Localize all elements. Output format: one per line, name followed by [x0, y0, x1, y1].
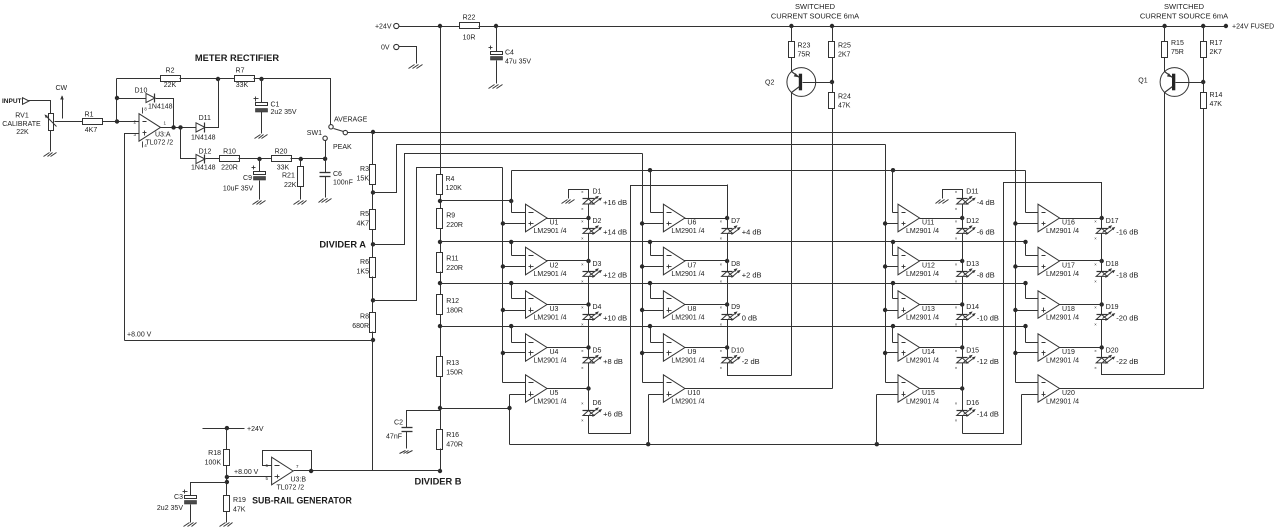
svg-text:D20: D20	[1106, 347, 1119, 354]
svg-text:-22 dB: -22 dB	[1116, 357, 1138, 366]
svg-text:U3:A: U3:A	[155, 132, 171, 139]
svg-text:150R: 150R	[446, 370, 463, 377]
svg-text:D13: D13	[966, 261, 979, 268]
svg-text:-4 dB: -4 dB	[977, 198, 995, 207]
svg-text:C2: C2	[394, 420, 403, 427]
svg-text:U2: U2	[550, 263, 559, 270]
svg-text:+6 dB: +6 dB	[603, 410, 623, 419]
svg-text:2u2 35V: 2u2 35V	[271, 109, 297, 116]
svg-text:R24: R24	[838, 94, 851, 101]
svg-text:D14: D14	[966, 304, 979, 311]
svg-text:R18: R18	[208, 450, 221, 457]
svg-text:U11: U11	[922, 220, 934, 227]
svg-text:PEAK: PEAK	[333, 144, 352, 151]
svg-text:10uF 35V: 10uF 35V	[223, 186, 254, 193]
svg-text:+8.00 V: +8.00 V	[234, 469, 259, 476]
svg-text:U4: U4	[550, 349, 559, 356]
svg-text:U1: U1	[550, 220, 559, 227]
svg-text:R23: R23	[798, 43, 811, 50]
svg-text:CALIBRATE: CALIBRATE	[2, 121, 41, 128]
svg-text:D7: D7	[731, 218, 740, 225]
svg-text:R1: R1	[85, 112, 94, 119]
svg-text:INPUT: INPUT	[2, 98, 22, 105]
svg-text:+24V: +24V	[375, 24, 392, 31]
svg-text:2u2 35V: 2u2 35V	[157, 505, 183, 512]
svg-text:D15: D15	[966, 347, 979, 354]
svg-text:-14 dB: -14 dB	[977, 410, 999, 419]
svg-text:D10: D10	[135, 88, 148, 95]
svg-text:R9: R9	[446, 213, 455, 220]
svg-text:D17: D17	[1106, 218, 1119, 225]
svg-text:2K7: 2K7	[1210, 49, 1223, 56]
svg-text:+8 dB: +8 dB	[603, 357, 623, 366]
svg-text:U3: U3	[550, 306, 559, 313]
svg-text:+24V: +24V	[247, 426, 264, 433]
svg-text:100nF: 100nF	[333, 179, 353, 186]
svg-text:-6 dB: -6 dB	[977, 228, 995, 237]
svg-text:D6: D6	[593, 400, 602, 407]
svg-text:LM2901 /4: LM2901 /4	[906, 228, 939, 235]
svg-text:+12 dB: +12 dB	[603, 271, 627, 280]
svg-text:180R: 180R	[446, 308, 463, 315]
svg-text:+4 dB: +4 dB	[742, 228, 762, 237]
svg-text:-18 dB: -18 dB	[1116, 271, 1138, 280]
svg-text:D12: D12	[199, 148, 212, 155]
svg-text:U14: U14	[922, 349, 935, 356]
svg-text:D16: D16	[966, 400, 979, 407]
svg-text:1N4148: 1N4148	[148, 104, 173, 111]
svg-text:C9: C9	[243, 175, 252, 182]
svg-text:470R: 470R	[446, 442, 463, 449]
svg-text:SW1: SW1	[307, 130, 322, 137]
svg-text:33K: 33K	[277, 164, 290, 171]
svg-text:R5: R5	[360, 211, 369, 218]
svg-text:U16: U16	[1062, 220, 1075, 227]
svg-text:DIVIDER A: DIVIDER A	[319, 240, 366, 250]
svg-text:C1: C1	[271, 102, 280, 109]
svg-text:R4: R4	[446, 176, 455, 183]
svg-text:-20 dB: -20 dB	[1116, 314, 1138, 323]
svg-text:R10: R10	[223, 148, 236, 155]
svg-text:100K: 100K	[205, 460, 222, 467]
svg-text:U18: U18	[1062, 306, 1075, 313]
svg-text:C4: C4	[505, 50, 514, 57]
svg-text:SWITCHED: SWITCHED	[795, 2, 836, 11]
svg-text:R2: R2	[166, 68, 175, 75]
svg-text:0 dB: 0 dB	[742, 314, 757, 323]
svg-text:U15: U15	[922, 390, 935, 397]
svg-text:4K7: 4K7	[85, 127, 98, 134]
svg-text:D18: D18	[1106, 261, 1119, 268]
svg-text:33K: 33K	[236, 82, 249, 89]
svg-text:LM2901 /4: LM2901 /4	[671, 228, 704, 235]
svg-text:CW: CW	[56, 85, 68, 92]
svg-text:22K: 22K	[284, 182, 297, 189]
svg-text:0V: 0V	[381, 45, 390, 52]
svg-text:75R: 75R	[798, 52, 811, 59]
svg-text:1N4148: 1N4148	[191, 134, 216, 141]
svg-text:LM2901 /4: LM2901 /4	[671, 315, 704, 322]
svg-text:220R: 220R	[446, 265, 463, 272]
svg-text:U13: U13	[922, 306, 935, 313]
svg-text:R8: R8	[360, 314, 369, 321]
svg-text:LM2901 /4: LM2901 /4	[906, 399, 939, 406]
svg-text:R7: R7	[236, 68, 245, 75]
svg-text:D12: D12	[966, 218, 979, 225]
svg-text:4K7: 4K7	[357, 221, 370, 228]
svg-text:C3: C3	[174, 494, 183, 501]
svg-text:+24V FUSED: +24V FUSED	[1232, 24, 1274, 31]
svg-text:Q2: Q2	[765, 80, 774, 87]
svg-text:D11: D11	[966, 188, 978, 195]
svg-text:LM2901 /4: LM2901 /4	[534, 271, 567, 278]
svg-text:LM2901 /4: LM2901 /4	[671, 358, 704, 365]
svg-text:+14 dB: +14 dB	[603, 228, 627, 237]
svg-text:LM2901 /4: LM2901 /4	[534, 358, 567, 365]
svg-text:TL072 /2: TL072 /2	[146, 140, 174, 147]
svg-text:R6: R6	[360, 259, 369, 266]
svg-text:R25: R25	[838, 43, 851, 50]
svg-text:R15: R15	[1171, 40, 1184, 47]
svg-text:LM2901 /4: LM2901 /4	[671, 271, 704, 278]
svg-text:+10 dB: +10 dB	[603, 314, 627, 323]
svg-text:U19: U19	[1062, 349, 1075, 356]
svg-text:680R: 680R	[352, 323, 369, 330]
svg-text:47nF: 47nF	[386, 434, 402, 441]
svg-text:LM2901 /4: LM2901 /4	[1046, 228, 1079, 235]
svg-text:D19: D19	[1106, 304, 1119, 311]
svg-text:-10 dB: -10 dB	[977, 314, 999, 323]
svg-text:U3:B: U3:B	[291, 477, 307, 484]
svg-text:AVERAGE: AVERAGE	[334, 116, 368, 123]
svg-text:47u 35V: 47u 35V	[505, 59, 531, 66]
svg-text:U17: U17	[1062, 263, 1075, 270]
svg-text:47K: 47K	[838, 103, 851, 110]
svg-text:U20: U20	[1062, 390, 1075, 397]
svg-text:1N4148: 1N4148	[191, 164, 216, 171]
svg-text:D8: D8	[731, 261, 740, 268]
svg-text:D1: D1	[593, 188, 602, 195]
svg-text:+16 dB: +16 dB	[603, 198, 627, 207]
svg-text:220R: 220R	[221, 164, 238, 171]
svg-text:120K: 120K	[446, 185, 463, 192]
svg-text:R20: R20	[275, 148, 288, 155]
svg-text:TL072 /2: TL072 /2	[277, 485, 305, 492]
svg-text:75R: 75R	[1171, 49, 1184, 56]
svg-text:SWITCHED: SWITCHED	[1164, 2, 1205, 11]
svg-text:LM2901 /4: LM2901 /4	[534, 399, 567, 406]
svg-text:LM2901 /4: LM2901 /4	[906, 271, 939, 278]
svg-text:+2 dB: +2 dB	[742, 271, 762, 280]
svg-text:D5: D5	[593, 347, 602, 354]
svg-text:2K7: 2K7	[838, 52, 851, 59]
svg-text:R16: R16	[446, 432, 459, 439]
svg-text:METER RECTIFIER: METER RECTIFIER	[195, 53, 279, 63]
svg-text:LM2901 /4: LM2901 /4	[1046, 358, 1079, 365]
svg-text:LM2901 /4: LM2901 /4	[534, 228, 567, 235]
svg-text:47K: 47K	[1210, 101, 1223, 108]
svg-text:+8.00 V: +8.00 V	[127, 332, 152, 339]
svg-text:SUB-RAIL GENERATOR: SUB-RAIL GENERATOR	[252, 496, 352, 506]
svg-text:U6: U6	[687, 220, 696, 227]
svg-text:R11: R11	[446, 256, 458, 263]
svg-text:220R: 220R	[446, 222, 463, 229]
svg-text:22K: 22K	[164, 82, 177, 89]
svg-text:-8 dB: -8 dB	[977, 271, 995, 280]
svg-text:R17: R17	[1210, 40, 1223, 47]
svg-text:U9: U9	[687, 349, 696, 356]
svg-text:U5: U5	[550, 390, 559, 397]
svg-text:U7: U7	[687, 263, 696, 270]
svg-text:R14: R14	[1210, 92, 1223, 99]
svg-text:-2 dB: -2 dB	[742, 357, 760, 366]
svg-text:15K: 15K	[357, 176, 370, 183]
svg-text:U10: U10	[687, 390, 700, 397]
svg-text:D10: D10	[731, 347, 744, 354]
svg-text:D2: D2	[593, 218, 602, 225]
svg-text:CURRENT SOURCE 6mA: CURRENT SOURCE 6mA	[771, 12, 859, 21]
svg-text:D9: D9	[731, 304, 740, 311]
svg-text:U8: U8	[687, 306, 696, 313]
svg-text:R12: R12	[446, 298, 459, 305]
svg-text:R22: R22	[463, 15, 476, 22]
svg-text:R19: R19	[233, 497, 246, 504]
svg-text:R3: R3	[360, 166, 369, 173]
svg-text:CURRENT SOURCE 6mA: CURRENT SOURCE 6mA	[1140, 12, 1228, 21]
svg-text:LM2901 /4: LM2901 /4	[534, 315, 567, 322]
svg-text:LM2901 /4: LM2901 /4	[1046, 399, 1079, 406]
svg-text:-16 dB: -16 dB	[1116, 228, 1138, 237]
svg-text:D11: D11	[199, 115, 211, 122]
svg-text:DIVIDER B: DIVIDER B	[414, 477, 461, 487]
svg-text:1K5: 1K5	[357, 269, 370, 276]
svg-text:C6: C6	[333, 171, 342, 178]
svg-text:R21: R21	[282, 173, 295, 180]
svg-text:-12 dB: -12 dB	[977, 357, 999, 366]
svg-text:D3: D3	[593, 261, 602, 268]
svg-text:LM2901 /4: LM2901 /4	[671, 399, 704, 406]
svg-text:LM2901 /4: LM2901 /4	[1046, 315, 1079, 322]
svg-text:U12: U12	[922, 263, 935, 270]
svg-text:RV1: RV1	[15, 113, 29, 120]
svg-text:LM2901 /4: LM2901 /4	[906, 315, 939, 322]
svg-text:47K: 47K	[233, 507, 246, 514]
svg-text:D4: D4	[593, 304, 602, 311]
svg-text:10R: 10R	[463, 35, 476, 42]
svg-text:LM2901 /4: LM2901 /4	[1046, 271, 1079, 278]
svg-text:Q1: Q1	[1138, 78, 1147, 85]
svg-text:LM2901 /4: LM2901 /4	[906, 358, 939, 365]
svg-text:22K: 22K	[16, 129, 29, 136]
svg-text:R13: R13	[446, 360, 459, 367]
